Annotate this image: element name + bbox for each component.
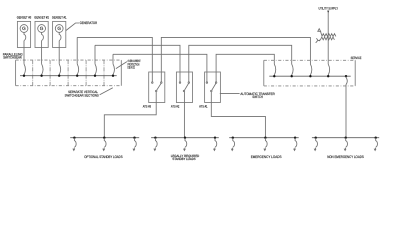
feeder bus1 left xyxy=(73,138,76,151)
svg-text:STANDBY LOADS: STANDBY LOADS xyxy=(172,157,195,161)
wire line C left (gen feeder3 to ATS1 emergency) xyxy=(113,54,207,72)
node gen2 xyxy=(40,75,42,77)
generator G2 circle xyxy=(38,25,46,33)
feeder bus4 right xyxy=(374,138,377,151)
utility supply wire xyxy=(327,11,329,61)
feeder bus1 mid xyxy=(103,138,106,151)
leader overcurrent protection device xyxy=(116,62,127,69)
service bus xyxy=(269,75,350,77)
node bus2 left xyxy=(154,137,156,139)
node bus2 mid xyxy=(184,137,186,139)
node service1 xyxy=(273,75,275,77)
node non-emergency feeder xyxy=(345,75,347,77)
ATS2 blade xyxy=(185,84,189,91)
switchgear section separator 4 xyxy=(85,60,87,86)
ATS3 emergency contact circle xyxy=(152,82,154,84)
ATS3 blade xyxy=(157,84,161,91)
label OVERCURRENT PROTECTION DEVICE xyxy=(128,59,141,70)
feeder bus2 left xyxy=(154,138,157,151)
generator G1 box xyxy=(53,21,66,47)
svg-text:SWITCHGEAR SECTIONS: SWITCHGEAR SECTIONS xyxy=(65,93,100,97)
ATS2 normal contact circle xyxy=(188,82,190,84)
wire line A left (gen feeder1 to ATS3 emergency) xyxy=(77,37,152,72)
svg-text:GENSET #2: GENSET #2 xyxy=(34,16,49,20)
gen lead 3 wire with breaker xyxy=(59,48,60,76)
node bus1 mid xyxy=(103,137,105,139)
ATS3 load route wire xyxy=(104,103,156,138)
gen lead 1 wire with breaker xyxy=(24,48,25,76)
node bus4 left xyxy=(315,137,317,139)
transformer secondary winding xyxy=(320,37,334,40)
legally required standby loads bus xyxy=(151,137,219,139)
svg-text:NON EMERGENCY LOADS: NON EMERGENCY LOADS xyxy=(327,155,364,159)
generator G1 circle xyxy=(55,25,63,33)
svg-text:SWITCH: SWITCH xyxy=(252,95,263,99)
node bus1 left xyxy=(73,137,75,139)
leader switchgear sections xyxy=(100,88,113,95)
utility feed arrowhead xyxy=(327,11,329,13)
ATS1 box xyxy=(205,72,221,103)
ATS2 normal contact stub xyxy=(188,72,190,82)
generator G3 breaker arc xyxy=(24,32,26,47)
node feeder2 xyxy=(94,75,96,77)
switchgear section separator 1 xyxy=(32,60,34,86)
node bus3 right xyxy=(294,137,296,139)
generator G3 circle xyxy=(20,25,28,33)
svg-text:GENERATOR: GENERATOR xyxy=(80,21,98,25)
feeder bus3 right xyxy=(294,138,297,151)
svg-text:G: G xyxy=(57,26,61,31)
generator G2 box xyxy=(35,21,48,47)
feeder bus2 mid xyxy=(184,138,187,151)
svg-text:GENSET #1: GENSET #1 xyxy=(52,16,67,20)
node bus1 right xyxy=(133,137,135,139)
label LEGALLY REQUIRED STANDBY LOADS xyxy=(171,154,200,161)
ATS1 blade xyxy=(212,84,216,91)
node feeder3 xyxy=(112,75,114,77)
ATS1 normal contact stub xyxy=(215,72,217,82)
svg-text:ATS #3: ATS #3 xyxy=(143,104,152,108)
transformer delta symbol xyxy=(318,29,321,32)
ATS3 output wire xyxy=(155,92,157,103)
generator G1 breaker arc xyxy=(59,32,61,47)
node bus4 mid xyxy=(345,137,347,139)
transformer primary winding xyxy=(322,34,336,37)
emergency loads bus xyxy=(229,137,299,139)
node bus3 left xyxy=(232,137,234,139)
leader to GENERATOR label xyxy=(66,23,79,31)
feeder bus1 right xyxy=(133,138,136,151)
service switchboard outline xyxy=(264,60,355,86)
feeder breaker 3 wire xyxy=(113,54,114,75)
feeder bus3 mid xyxy=(264,138,267,151)
generator G3 box xyxy=(17,21,30,47)
paralleling switchgear outline xyxy=(16,60,122,86)
utility main breaker wire xyxy=(328,60,329,76)
label PARALLELING SWITCHGEAR xyxy=(3,52,23,59)
node service3 xyxy=(309,75,311,77)
ATS1 emergency contact stub xyxy=(206,72,208,82)
svg-text:SWITCHGEAR: SWITCHGEAR xyxy=(3,56,22,60)
ATS2 common circle xyxy=(183,90,185,92)
svg-text:ATS #1: ATS #1 xyxy=(199,104,208,108)
wire line C right (ATS1 normal to service) xyxy=(216,54,274,72)
gen lead 2 wire with breaker xyxy=(42,48,43,76)
svg-text:GENSET #3: GENSET #3 xyxy=(17,16,32,20)
feeder breaker 2 wire xyxy=(95,45,96,75)
switchgear section separator 3 xyxy=(67,60,69,86)
node bus3 mid xyxy=(264,137,266,139)
label SEPARATE VERTICAL SWITCHGEAR SECTIONS xyxy=(65,90,100,97)
generator G2 breaker arc xyxy=(42,32,44,47)
ATS1 load route wire xyxy=(211,103,265,138)
ATS1 normal contact circle xyxy=(215,82,217,84)
service breaker 2 wire xyxy=(292,60,293,76)
label AUTOMATIC TRANSFER SWITCH xyxy=(240,92,275,99)
wire line B right (ATS2 normal to service) xyxy=(189,45,292,72)
node feeder1 xyxy=(76,75,78,77)
feeder bus3 left xyxy=(232,138,235,151)
ATS3 common circle xyxy=(155,90,157,92)
non-emergency feeder breaker wire xyxy=(346,76,348,138)
feeder bus4 left xyxy=(314,138,317,151)
switchgear section separator 5 xyxy=(103,60,105,86)
svg-text:EMERGENCY LOADS: EMERGENCY LOADS xyxy=(251,155,282,159)
svg-text:DEVICE: DEVICE xyxy=(128,66,135,70)
node bus2 right xyxy=(214,137,216,139)
ATS3 emergency contact stub xyxy=(151,72,153,82)
optional standby loads bus xyxy=(70,137,139,139)
ATS1 emergency contact circle xyxy=(206,82,208,84)
node service2 xyxy=(291,75,293,77)
leader automatic transfer switch xyxy=(220,93,240,95)
ATS2 load route wire xyxy=(183,103,185,138)
wire line A right (ATS3 normal to service) xyxy=(161,37,310,72)
wye-coil link xyxy=(319,39,321,42)
ATS2 output wire xyxy=(183,92,185,103)
node bus4 right xyxy=(375,137,377,139)
ATS1 output wire xyxy=(210,92,212,103)
svg-text:G: G xyxy=(40,26,44,31)
ATS3 normal contact stub xyxy=(160,72,162,82)
node gen1 xyxy=(23,75,25,77)
service breaker 1 wire xyxy=(274,60,275,76)
switchgear section separator 2 xyxy=(49,60,51,86)
svg-text:SERVICE: SERVICE xyxy=(351,56,362,60)
ATS2 emergency contact circle xyxy=(179,82,181,84)
feeder bus2 right xyxy=(214,138,217,151)
svg-text:UTILITY SUPPLY: UTILITY SUPPLY xyxy=(319,6,339,10)
svg-text:ATS #2: ATS #2 xyxy=(171,104,180,108)
ATS1 common circle xyxy=(211,90,213,92)
wire line B left (gen feeder2 to ATS2 emergency) xyxy=(95,45,180,72)
svg-text:OPTIONAL STANDBY LOADS: OPTIONAL STANDBY LOADS xyxy=(84,155,123,159)
ATS3 box xyxy=(149,72,165,103)
feeder breaker 1 wire xyxy=(77,37,78,75)
non-emergency loads bus xyxy=(312,137,379,139)
service breaker 3 wire xyxy=(310,60,311,76)
svg-text:G: G xyxy=(22,26,26,31)
node utility main xyxy=(327,75,329,77)
feeder bus4 mid xyxy=(344,138,347,151)
generator switchgear bus xyxy=(20,75,117,77)
ATS2 box xyxy=(176,72,192,103)
delta-coil link xyxy=(321,31,322,35)
transformer wye symbol xyxy=(316,38,320,43)
ATS3 normal contact circle xyxy=(161,82,163,84)
ATS2 emergency contact stub xyxy=(179,72,181,82)
node gen3 xyxy=(58,75,60,77)
